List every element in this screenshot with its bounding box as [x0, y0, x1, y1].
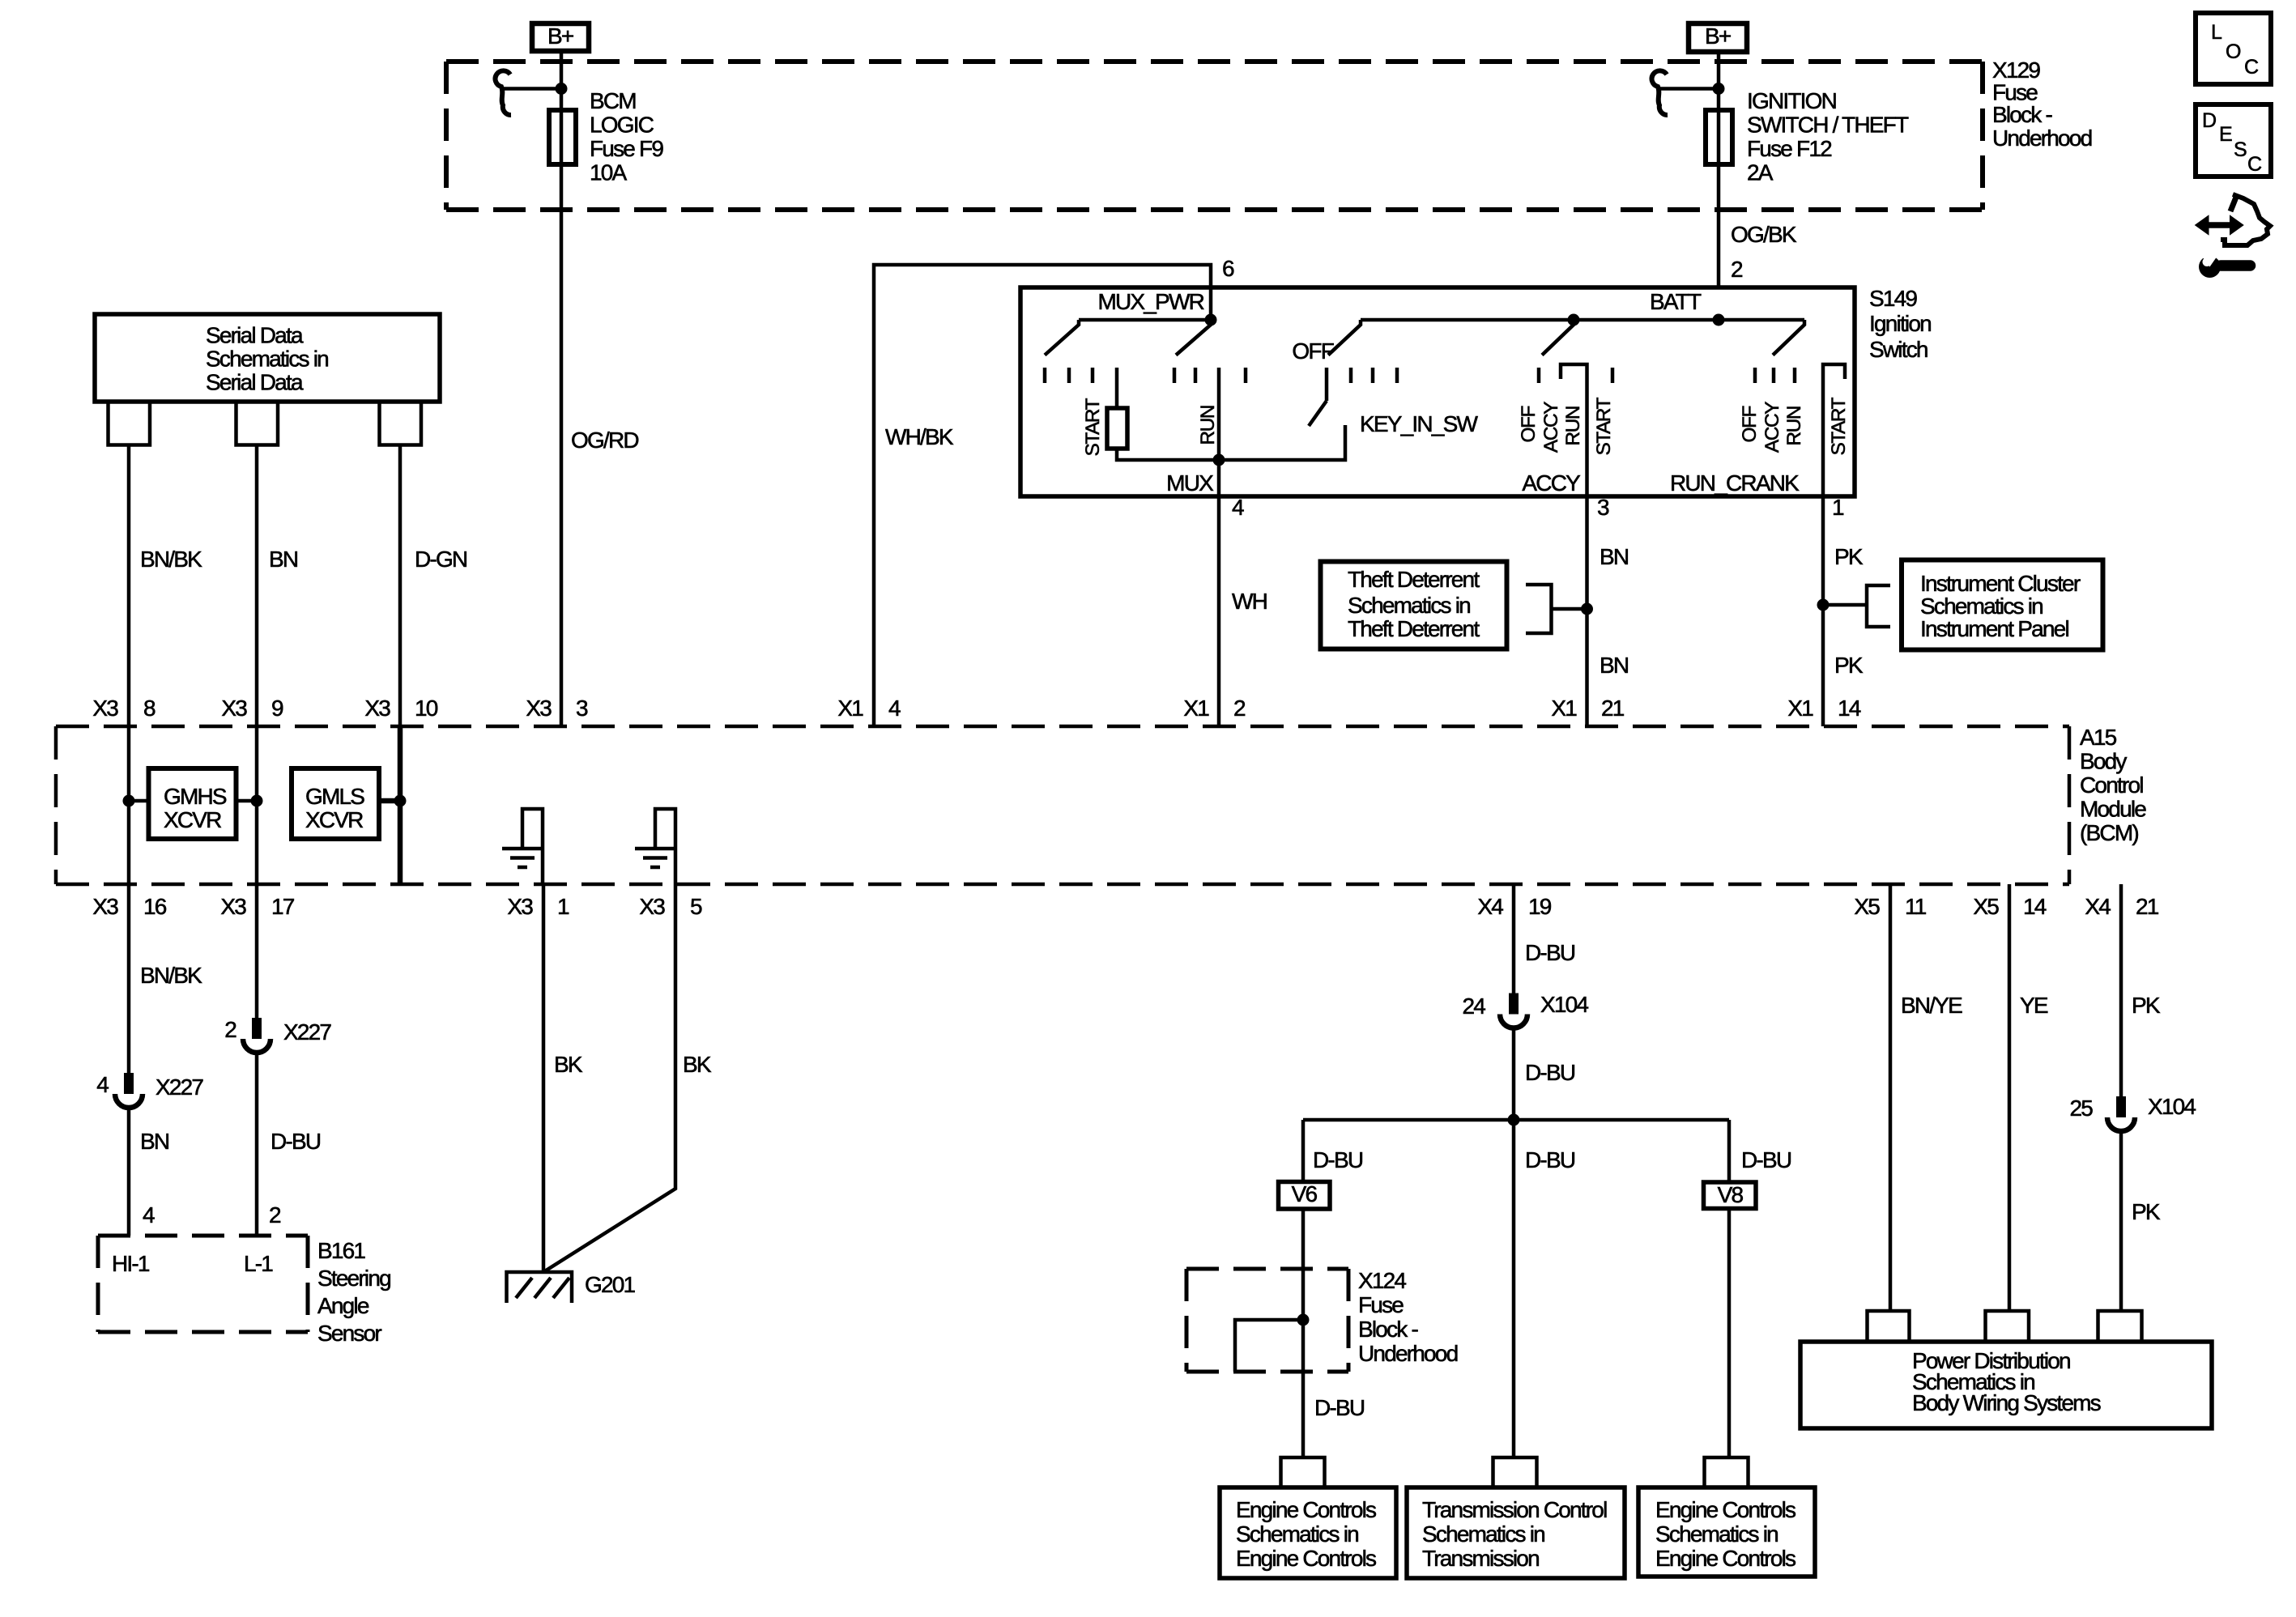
svg-text:IGNITION: IGNITION — [1747, 88, 1836, 113]
svg-text:START: START — [1593, 397, 1615, 455]
svg-text:BN/BK: BN/BK — [140, 963, 202, 988]
svg-text:X227: X227 — [283, 1019, 331, 1045]
svg-text:YE: YE — [2020, 993, 2048, 1018]
svg-text:3: 3 — [1597, 495, 1609, 520]
svg-text:19: 19 — [1528, 894, 1552, 919]
svg-text:Fuse: Fuse — [1358, 1292, 1404, 1317]
svg-text:5: 5 — [690, 894, 702, 919]
svg-text:OG/RD: OG/RD — [571, 428, 638, 453]
svg-text:9: 9 — [271, 696, 283, 721]
svg-text:GMLS: GMLS — [305, 784, 364, 809]
svg-text:C: C — [2247, 153, 2262, 176]
svg-text:2: 2 — [1233, 696, 1246, 721]
svg-text:X227: X227 — [155, 1074, 203, 1100]
svg-text:Schematics in: Schematics in — [1920, 594, 2043, 619]
svg-text:X5: X5 — [1973, 894, 1999, 919]
svg-text:D-BU: D-BU — [270, 1129, 321, 1154]
svg-text:X3: X3 — [526, 696, 552, 721]
svg-text:25: 25 — [2069, 1096, 2093, 1121]
svg-text:X5: X5 — [1854, 894, 1880, 919]
svg-text:BN/YE: BN/YE — [1901, 993, 1962, 1018]
svg-text:X1: X1 — [837, 696, 863, 721]
svg-text:BK: BK — [554, 1052, 583, 1077]
svg-text:Engine Controls: Engine Controls — [1236, 1546, 1376, 1571]
svg-text:4: 4 — [888, 696, 901, 721]
svg-text:X1: X1 — [1551, 696, 1577, 721]
svg-text:Body: Body — [2080, 749, 2127, 774]
svg-text:10A: 10A — [590, 160, 628, 185]
svg-text:Engine Controls: Engine Controls — [1655, 1497, 1795, 1522]
svg-text:WH/BK: WH/BK — [885, 424, 954, 449]
svg-text:V6: V6 — [1292, 1181, 1318, 1206]
svg-text:Steering: Steering — [317, 1266, 390, 1291]
svg-text:Block -: Block - — [1358, 1317, 1418, 1342]
svg-text:21: 21 — [2136, 894, 2159, 919]
svg-text:1: 1 — [1832, 495, 1844, 520]
svg-text:XCVR: XCVR — [305, 807, 363, 832]
svg-text:WH: WH — [1232, 589, 1267, 614]
svg-text:OFF: OFF — [1739, 406, 1761, 442]
svg-text:SWITCH / THEFT: SWITCH / THEFT — [1747, 113, 1909, 138]
svg-text:A15: A15 — [2080, 725, 2117, 750]
svg-text:GMHS: GMHS — [164, 784, 227, 809]
svg-text:2: 2 — [269, 1202, 281, 1228]
svg-text:(BCM): (BCM) — [2080, 820, 2138, 845]
svg-text:X3: X3 — [92, 696, 118, 721]
svg-text:V8: V8 — [1718, 1182, 1744, 1207]
svg-text:S149: S149 — [1869, 286, 1917, 311]
svg-text:OFF: OFF — [1292, 338, 1333, 364]
svg-text:Schematics in: Schematics in — [1422, 1521, 1544, 1547]
svg-text:Engine Controls: Engine Controls — [1236, 1497, 1376, 1522]
svg-text:X3: X3 — [507, 894, 533, 919]
svg-text:14: 14 — [2023, 894, 2047, 919]
svg-text:RUN_CRANK: RUN_CRANK — [1670, 470, 1800, 496]
svg-text:Block -: Block - — [1992, 102, 2052, 127]
svg-text:Serial Data: Serial Data — [206, 323, 304, 348]
svg-text:Schematics in: Schematics in — [1236, 1521, 1358, 1547]
svg-text:MUX_PWR: MUX_PWR — [1097, 289, 1203, 314]
svg-text:2A: 2A — [1747, 160, 1774, 185]
svg-text:8: 8 — [143, 696, 155, 721]
svg-text:RUN: RUN — [1783, 406, 1805, 446]
svg-text:16: 16 — [143, 894, 167, 919]
svg-text:14: 14 — [1838, 696, 1861, 721]
svg-text:OFF: OFF — [1518, 406, 1540, 442]
svg-text:L-1: L-1 — [244, 1251, 273, 1276]
svg-text:B161: B161 — [317, 1238, 365, 1263]
svg-text:RUN: RUN — [1562, 406, 1584, 446]
svg-text:Underhood: Underhood — [1992, 126, 2092, 151]
svg-text:D-BU: D-BU — [1525, 1060, 1575, 1085]
svg-text:B+: B+ — [547, 23, 573, 49]
svg-text:BCM: BCM — [590, 88, 636, 113]
svg-text:Body Wiring Systems: Body Wiring Systems — [1912, 1390, 2101, 1415]
svg-text:4: 4 — [1232, 495, 1244, 520]
svg-text:E: E — [2219, 123, 2232, 146]
svg-text:Sensor: Sensor — [317, 1321, 381, 1346]
svg-text:Module: Module — [2080, 797, 2146, 822]
svg-text:X3: X3 — [364, 696, 390, 721]
svg-text:D-GN: D-GN — [415, 547, 466, 572]
svg-text:OG/BK: OG/BK — [1731, 222, 1797, 247]
svg-text:BN: BN — [1600, 544, 1628, 569]
svg-text:BN: BN — [269, 547, 297, 572]
svg-text:Instrument Panel: Instrument Panel — [1920, 616, 2068, 641]
svg-text:11: 11 — [1905, 894, 1927, 919]
svg-text:21: 21 — [1601, 696, 1625, 721]
svg-text:PK: PK — [1834, 544, 1864, 569]
svg-text:O: O — [2226, 40, 2241, 63]
svg-text:Engine Controls: Engine Controls — [1655, 1546, 1795, 1571]
svg-text:4: 4 — [96, 1072, 109, 1097]
svg-text:Schematics in: Schematics in — [1348, 593, 1470, 618]
svg-text:Ignition: Ignition — [1869, 311, 1931, 336]
svg-text:Theft Deterrent: Theft Deterrent — [1348, 616, 1480, 641]
svg-text:PK: PK — [2132, 993, 2161, 1018]
svg-text:Schematics in: Schematics in — [206, 347, 328, 372]
svg-text:X3: X3 — [92, 894, 118, 919]
svg-text:BK: BK — [683, 1052, 712, 1077]
svg-text:X4: X4 — [2085, 894, 2111, 919]
svg-text:1: 1 — [557, 894, 569, 919]
svg-text:Serial Data: Serial Data — [206, 370, 304, 395]
svg-text:G201: G201 — [585, 1272, 636, 1297]
svg-text:B+: B+ — [1705, 23, 1731, 49]
svg-text:PK: PK — [2132, 1199, 2161, 1224]
svg-text:BN/BK: BN/BK — [140, 547, 202, 572]
svg-text:X104: X104 — [2148, 1094, 2196, 1119]
svg-text:Instrument Cluster: Instrument Cluster — [1920, 571, 2081, 596]
svg-text:Fuse F12: Fuse F12 — [1747, 136, 1832, 161]
svg-text:X129: X129 — [1992, 57, 2040, 83]
svg-text:6: 6 — [1222, 256, 1234, 281]
svg-text:X1: X1 — [1787, 696, 1813, 721]
svg-text:Fuse: Fuse — [1992, 80, 2038, 105]
svg-text:Fuse F9: Fuse F9 — [590, 136, 663, 161]
svg-text:D-BU: D-BU — [1313, 1147, 1363, 1172]
svg-text:10: 10 — [415, 696, 438, 721]
svg-text:ACCY: ACCY — [1522, 470, 1581, 496]
svg-text:ACCY: ACCY — [1761, 402, 1783, 453]
svg-text:X1: X1 — [1183, 696, 1209, 721]
svg-text:X3: X3 — [220, 894, 246, 919]
svg-text:D-BU: D-BU — [1525, 1147, 1575, 1172]
svg-text:Switch: Switch — [1869, 337, 1928, 362]
svg-text:BN: BN — [1600, 653, 1628, 678]
svg-text:START: START — [1082, 398, 1104, 456]
svg-text:PK: PK — [1834, 653, 1864, 678]
svg-text:X3: X3 — [221, 696, 247, 721]
svg-text:D: D — [2202, 109, 2216, 132]
svg-text:3: 3 — [576, 696, 588, 721]
svg-text:Theft Deterrent: Theft Deterrent — [1348, 567, 1480, 592]
svg-text:KEY_IN_SW: KEY_IN_SW — [1360, 411, 1478, 436]
svg-text:X104: X104 — [1540, 992, 1588, 1017]
svg-text:Schematics in: Schematics in — [1655, 1521, 1778, 1547]
svg-text:D-BU: D-BU — [1525, 940, 1575, 965]
svg-text:C: C — [2244, 56, 2259, 79]
svg-text:Transmission: Transmission — [1422, 1546, 1539, 1571]
svg-text:24: 24 — [1462, 994, 1485, 1019]
svg-text:X3: X3 — [639, 894, 665, 919]
svg-text:X4: X4 — [1477, 894, 1503, 919]
svg-text:RUN: RUN — [1197, 406, 1219, 445]
svg-text:MUX: MUX — [1166, 470, 1214, 496]
svg-text:ACCY: ACCY — [1540, 402, 1562, 453]
svg-text:Angle: Angle — [317, 1293, 369, 1318]
svg-text:4: 4 — [143, 1202, 155, 1228]
svg-text:L: L — [2211, 21, 2222, 44]
svg-text:17: 17 — [271, 894, 295, 919]
svg-text:Transmission Control: Transmission Control — [1422, 1497, 1607, 1522]
svg-text:BATT: BATT — [1650, 289, 1702, 314]
svg-text:LOGIC: LOGIC — [590, 113, 654, 138]
svg-text:D-BU: D-BU — [1314, 1395, 1365, 1420]
svg-text:D-BU: D-BU — [1741, 1147, 1791, 1172]
svg-text:Underhood: Underhood — [1358, 1341, 1458, 1366]
svg-text:START: START — [1828, 397, 1850, 455]
svg-text:Control: Control — [2080, 772, 2143, 798]
svg-text:HI-1: HI-1 — [112, 1251, 150, 1276]
svg-text:S: S — [2234, 138, 2247, 161]
svg-text:XCVR: XCVR — [164, 807, 221, 832]
svg-text:BN: BN — [140, 1129, 168, 1154]
svg-text:2: 2 — [1731, 257, 1743, 282]
svg-text:2: 2 — [224, 1017, 236, 1042]
svg-text:X124: X124 — [1358, 1268, 1406, 1293]
